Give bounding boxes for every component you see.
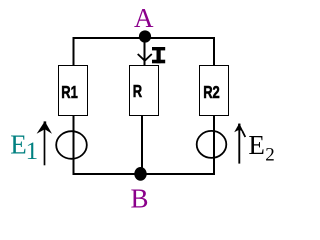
svg-text:E: E bbox=[248, 130, 265, 160]
wire node A to resistor R bbox=[144, 37, 146, 67]
wire right branch vertical bbox=[213, 37, 215, 175]
resistor R bbox=[130, 66, 159, 116]
svg-text:1: 1 bbox=[26, 138, 38, 165]
svg-text:R1: R1 bbox=[61, 83, 78, 103]
E2 arrowhead tail stroke bbox=[242, 131, 245, 137]
svg-text:B: B bbox=[131, 184, 149, 214]
E2 source arrow shaft bbox=[238, 128, 240, 164]
E1 source arrowhead bbox=[37, 121, 52, 133]
voltage source E2 circle bbox=[197, 131, 227, 158]
svg-text:2: 2 bbox=[265, 145, 275, 166]
wire top (node A rail) bbox=[73, 37, 216, 39]
E1 source arrow shaft bbox=[44, 128, 46, 165]
svg-text:R2: R2 bbox=[203, 83, 220, 103]
wire resistor R to node B bbox=[141, 115, 143, 174]
voltage source E1 circle bbox=[56, 131, 87, 159]
resistor R2 bbox=[200, 66, 229, 116]
current I arrowhead on middle branch bbox=[138, 54, 152, 61]
current I label bbox=[152, 47, 165, 63]
wire left branch vertical bbox=[73, 37, 75, 175]
svg-text:A: A bbox=[134, 3, 154, 33]
node A junction dot bbox=[139, 30, 151, 42]
wire bottom (node B rail) bbox=[73, 173, 216, 175]
node B junction dot bbox=[134, 167, 146, 181]
svg-text:R: R bbox=[133, 82, 142, 102]
svg-text:E: E bbox=[10, 129, 27, 159]
resistor R1 bbox=[59, 66, 88, 116]
E2 source arrowhead bbox=[234, 123, 244, 132]
